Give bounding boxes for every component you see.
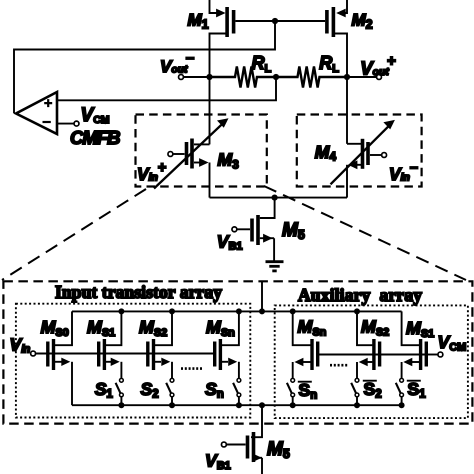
node M2 drain junction bbox=[344, 74, 350, 80]
node MSn drain junction bbox=[236, 308, 242, 314]
label S1-bar bbox=[407, 379, 426, 401]
dotted box auxiliary array bbox=[275, 305, 468, 418]
resistor RL left bbox=[210, 67, 277, 88]
node resistor midpoint bbox=[273, 74, 279, 80]
transistor M2 bbox=[275, 0, 347, 77]
switch Sn bbox=[233, 378, 242, 408]
transistor M3 bbox=[154, 118, 229, 197]
node riser top junction bbox=[259, 308, 265, 314]
resistor RL right bbox=[276, 67, 347, 88]
node MS2 aux drain junction bbox=[354, 308, 360, 314]
wire VCM gate rail bbox=[318, 354, 426, 356]
transistor MSn aux bbox=[293, 311, 320, 378]
transistor MS2 bbox=[146, 311, 172, 378]
transistor MS1 aux bbox=[402, 311, 428, 378]
svg-text:CMFB: CMFB bbox=[70, 127, 121, 148]
svg-text:Auxiliary array: Auxiliary array bbox=[298, 285, 422, 305]
wire array bottom rail bbox=[72, 404, 402, 406]
label S2-bar bbox=[363, 379, 382, 401]
wire riser to bottom M5 bbox=[251, 405, 262, 437]
wire Vout+ to M4 drain bbox=[346, 77, 348, 144]
node gates M1-M2 junction bbox=[272, 18, 278, 24]
transistor M4 bbox=[331, 120, 395, 198]
transistor MS1 bbox=[97, 311, 121, 378]
wire CMFB output to gates bbox=[14, 21, 275, 113]
switch S1 bbox=[116, 378, 125, 408]
node bottom riser junction bbox=[259, 402, 265, 408]
transistor M1 bbox=[210, 0, 276, 77]
dashed zoom line right bbox=[264, 186, 466, 280]
switch S1-bar bbox=[396, 378, 405, 408]
dots ellipsis right bbox=[330, 364, 348, 367]
node Vout+ terminal bbox=[347, 75, 381, 80]
label Sn-bar bbox=[298, 380, 317, 402]
wire common source node bbox=[210, 197, 348, 199]
node MSn aux drain junction bbox=[290, 308, 296, 314]
switch S2-bar bbox=[351, 378, 360, 408]
dashed box array outer bbox=[3, 281, 472, 423]
wire array top rail bbox=[72, 310, 402, 312]
switch Sn-bar bbox=[287, 378, 296, 408]
dots ellipsis left bbox=[181, 367, 203, 370]
dotted box input array bbox=[16, 304, 250, 418]
dashed box M4 bbox=[297, 115, 422, 187]
switch S2 bbox=[166, 378, 175, 408]
transistor MSn bbox=[213, 311, 239, 378]
dashed box M3 bbox=[136, 115, 267, 187]
label VCM bbox=[57, 105, 110, 126]
node Vout- terminal bbox=[179, 74, 213, 80]
node VCM terminal bbox=[426, 352, 443, 357]
transistor M5 bbox=[232, 198, 275, 261]
node M5 drain junction bbox=[272, 195, 278, 201]
transistor MS0 bbox=[46, 311, 72, 405]
transistor M5 bottom bbox=[221, 432, 262, 474]
wire riser to array bbox=[261, 281, 263, 311]
transistor MS2 aux bbox=[357, 311, 381, 378]
node MS2 drain junction bbox=[169, 308, 175, 314]
wire CMFB plus input from resistor midpoint bbox=[57, 77, 276, 100]
dashed zoom line left bbox=[2, 189, 146, 280]
node MS1 drain junction bbox=[118, 308, 124, 314]
svg-text:Input transistor array: Input transistor array bbox=[55, 282, 222, 302]
node Vin terminal bbox=[31, 351, 215, 356]
wire Vout- to M3 drain bbox=[209, 77, 211, 144]
ground bbox=[266, 262, 284, 271]
op-amp CMFB bbox=[16, 92, 57, 134]
